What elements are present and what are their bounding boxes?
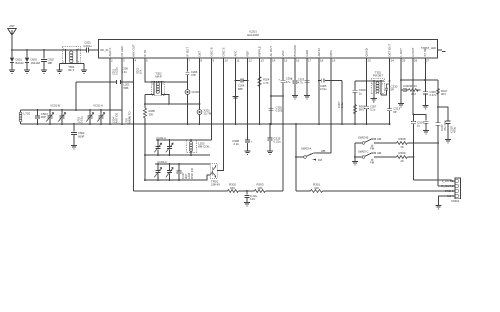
- svg-text:R OUT: R OUT: [411, 47, 415, 56]
- capacitor C310: [385, 84, 398, 92]
- wire x448 branch from x438: [438, 107, 448, 120]
- ground: [445, 140, 451, 143]
- ground: [81, 70, 87, 73]
- resistor R302: [228, 183, 239, 193]
- capacitor C316 on pin27 wire to ground: [423, 90, 437, 106]
- ground: [9, 70, 15, 73]
- svg-text:2: 2: [111, 59, 113, 63]
- svg-text:RF AGC: RF AGC: [120, 46, 124, 57]
- svg-text:DET: DET: [197, 50, 201, 56]
- capacitor C206 series on pin7 wire: [185, 70, 198, 77]
- svg-text:QUAD: QUAD: [364, 48, 368, 56]
- wire x296 from bus down through SW03-A to lower rail: [295, 124, 297, 191]
- lower bus y191: [134, 190, 456, 192]
- svg-text:0.22u: 0.22u: [274, 140, 282, 144]
- capacitor C307 series on pin22 wire: [364, 104, 377, 111]
- svg-text:0.1u: 0.1u: [370, 108, 376, 112]
- rotated label L703: [76, 116, 83, 123]
- capacitor series on x414: [411, 120, 424, 127]
- wire pin27 down: [425, 58, 427, 90]
- wire pin24 down: [389, 58, 391, 124]
- svg-text:MPX: MPX: [329, 50, 333, 56]
- nodes on VC01 rails: [37, 109, 146, 125]
- transistor TR01: [210, 164, 220, 187]
- trimmer capacitor VC03 a: [154, 163, 161, 181]
- wire pin7 down: [187, 58, 189, 82]
- svg-text:BYPASS: BYPASS: [293, 45, 297, 56]
- antenna ANT: [8, 24, 17, 50]
- wire pin22 down: [366, 58, 368, 124]
- svg-text:0.1u: 0.1u: [340, 102, 344, 108]
- svg-text:CN301: CN301: [451, 199, 460, 203]
- svg-text:68P: 68P: [238, 87, 243, 91]
- capacitor C304 electrolytic on pin15: [278, 58, 292, 124]
- svg-text:24: 24: [391, 59, 395, 63]
- svg-text:VC03-A: VC03-A: [157, 160, 167, 164]
- trimmer capacitor VC02 b: [166, 139, 173, 156]
- ground stub on pin11: [232, 97, 238, 100]
- wire connector row1: [414, 180, 456, 181]
- wire TR01 to pin10 riser: [216, 165, 224, 171]
- wire VC03 top rail: [155, 163, 210, 165]
- svg-text:MIX OUT: MIX OUT: [131, 44, 135, 56]
- rotated label L204 ANT COIL: [111, 111, 131, 124]
- wire link y80.5 pins18-19 to 342: [319, 80, 342, 82]
- svg-text:HA12002: HA12002: [247, 33, 259, 37]
- svg-text:SW03-C: SW03-C: [358, 150, 369, 154]
- ground: [371, 99, 377, 102]
- wire jog x426 cap to ground: [414, 115, 427, 121]
- svg-text:AF OUT: AF OUT: [269, 46, 273, 57]
- svg-text:47u 16V: 47u 16V: [443, 120, 447, 131]
- ground: [267, 151, 273, 154]
- wire x438 vertical down to connector row2: [437, 80, 439, 186]
- svg-text:18: 18: [320, 59, 324, 63]
- capacitor C315 below bus: [267, 123, 281, 151]
- wire riser x283 to bus: [282, 124, 284, 191]
- diode D501: [10, 50, 24, 70]
- resistor R308: [397, 137, 439, 149]
- wire pin26 down: [412, 58, 414, 115]
- diode D502: [25, 50, 41, 70]
- svg-text:FM: FM: [370, 146, 375, 150]
- svg-text:R308: R308: [399, 137, 406, 141]
- svg-text:1: 1: [372, 84, 374, 86]
- node at 44,50: [43, 49, 45, 51]
- inductor L203 dashed box: [186, 139, 210, 156]
- svg-text:30P: 30P: [41, 115, 46, 119]
- transformer T504: [60, 46, 85, 72]
- capacitor C308 below bus: [232, 124, 253, 151]
- svg-text:10.7M: 10.7M: [204, 112, 212, 116]
- svg-text:19: 19: [332, 59, 336, 63]
- wire pin25 down: [400, 58, 402, 90]
- wire link y81 x355 to T302: [355, 80, 371, 82]
- capacitor C313 on pin24 wire: [387, 107, 401, 114]
- ground: [398, 104, 404, 107]
- svg-text:VC01-B: VC01-B: [50, 104, 60, 108]
- wire pin12 down: [247, 58, 249, 124]
- trimmer capacitor VC02 a: [154, 139, 161, 156]
- svg-text:22: 22: [368, 59, 372, 63]
- svg-text:5P: 5P: [391, 88, 395, 92]
- switch SW03-A: [295, 147, 331, 162]
- svg-text:VC01-A: VC01-A: [93, 104, 103, 108]
- wire pin4 long down to lower bus: [133, 58, 135, 191]
- wire pin14 down: [270, 58, 272, 124]
- node at 12,50: [11, 49, 13, 51]
- svg-text:R313: R313: [410, 84, 417, 88]
- wire antenna input rail y50: [12, 49, 65, 51]
- capacitor C504: [35, 110, 48, 124]
- svg-text:WB: WB: [321, 149, 326, 153]
- wire pin11 down: [235, 58, 237, 124]
- ground: [244, 203, 250, 206]
- svg-text:AM COIL: AM COIL: [198, 145, 210, 149]
- svg-text:4: 4: [135, 59, 137, 63]
- svg-text:REF: REF: [245, 50, 249, 56]
- wire pin5 down: [145, 58, 152, 82]
- capacitor C303 on pin16 to ground: [291, 58, 305, 96]
- wire pin18 down: [318, 58, 320, 124]
- ground: [304, 96, 310, 99]
- svg-text:8: 8: [201, 59, 203, 63]
- resistor R301: [311, 183, 323, 193]
- capacitor C502: [41, 50, 54, 70]
- svg-text:5K6: 5K6: [359, 108, 365, 112]
- svg-text:0.01u: 0.01u: [79, 116, 83, 123]
- resistor R204: [258, 77, 270, 87]
- svg-text:RF T: RF T: [68, 68, 74, 72]
- wire x414 vertical to connector row1: [413, 115, 415, 180]
- capacitor C319 series on x448: [445, 121, 456, 140]
- capacitor C205: [117, 80, 121, 84]
- node: [109, 81, 111, 83]
- svg-text:14: 14: [272, 59, 276, 63]
- svg-text:IF IN: IF IN: [143, 50, 147, 56]
- svg-text:10K: 10K: [257, 186, 262, 190]
- wire connector row4 to ground: [439, 196, 456, 206]
- svg-text:330: 330: [149, 112, 154, 116]
- wire branch x355: [354, 81, 356, 124]
- wire pin19 down to SW03-A: [330, 58, 332, 153]
- svg-text:0.022u: 0.022u: [115, 67, 118, 75]
- svg-text:R309: R309: [399, 151, 406, 155]
- svg-text:6P: 6P: [393, 110, 397, 114]
- svg-text:CF201: CF201: [192, 90, 201, 94]
- wire pin13 down: [259, 58, 261, 124]
- resistor R317 on x438: [437, 89, 448, 97]
- svg-text:13: 13: [261, 59, 265, 63]
- svg-text:DET OUT: DET OUT: [387, 44, 391, 57]
- svg-text:ST IND: ST IND: [423, 47, 427, 56]
- svg-text:FM: FM: [370, 160, 375, 164]
- svg-text:1K: 1K: [400, 159, 404, 163]
- wire AGC link y82: [76, 81, 134, 83]
- svg-text:11: 11: [237, 59, 240, 63]
- wire pin17 down to ground: [306, 58, 308, 96]
- svg-text:10K: 10K: [139, 69, 142, 74]
- capacitor C503 to ground below bus: [71, 123, 85, 145]
- svg-text:9: 9: [213, 59, 215, 63]
- VC01 top rail y110: [21, 109, 123, 111]
- rotated labels OSC coil: [181, 167, 194, 179]
- svg-text:+: +: [251, 140, 253, 144]
- transformer T302 FM DET: [371, 71, 387, 99]
- wire switch common to ground: [354, 143, 356, 162]
- op-amp IC201 main IC box: [99, 40, 438, 59]
- capacitor C302: [268, 106, 284, 113]
- svg-text:AM IF: AM IF: [155, 75, 163, 79]
- resistor R307 on x355: [354, 105, 367, 114]
- svg-text:FM: FM: [318, 158, 323, 162]
- resistor R303: [255, 183, 266, 193]
- wire pin8 down: [199, 58, 201, 124]
- svg-text:27: 27: [426, 59, 430, 63]
- IC pin labels (rotated) and pin numbers: [108, 44, 427, 57]
- svg-text:470u: 470u: [452, 126, 456, 133]
- svg-text:3: 3: [123, 59, 125, 63]
- nodes on main bus: [187, 123, 391, 125]
- svg-text:7: 7: [189, 59, 191, 63]
- transformer T202: [145, 72, 188, 105]
- svg-text:10: 10: [225, 59, 229, 63]
- svg-text:GND: GND: [305, 50, 309, 56]
- wire down to VC01 rail: [75, 82, 77, 110]
- svg-text:560P: 560P: [78, 134, 84, 138]
- svg-text:OSC B: OSC B: [209, 47, 213, 56]
- svg-text:OSC E: OSC E: [221, 47, 225, 56]
- svg-text:3K3: 3K3: [441, 92, 446, 96]
- trimmer capacitor VC01-A a: [86, 110, 93, 124]
- svg-text:4: 4: [382, 84, 384, 86]
- svg-text:1: 1: [152, 84, 154, 86]
- svg-text:L_OUT 1: L_OUT 1: [442, 179, 454, 183]
- svg-text:100: 100: [314, 186, 319, 190]
- crystal X201: [197, 109, 212, 116]
- svg-text:RIPPLE: RIPPLE: [257, 46, 261, 56]
- capacitor C306 on x355: [352, 88, 366, 95]
- svg-text:0.47u: 0.47u: [430, 93, 437, 97]
- wire left link x145: [144, 155, 146, 180]
- wire VC02 top rail: [156, 139, 212, 141]
- switch SW03-C: [355, 150, 397, 165]
- svg-text:4.7K: 4.7K: [263, 81, 269, 85]
- capacitor C320 + resistor R313 row y90 left: [401, 84, 421, 96]
- svg-text:GND 3: GND 3: [445, 189, 454, 193]
- svg-text:+: +: [278, 79, 280, 82]
- wire x425 down to cap: [425, 90, 427, 92]
- svg-text:10K: 10K: [230, 186, 235, 190]
- svg-text:1N4148: 1N4148: [31, 61, 41, 65]
- node at 27,50: [26, 49, 28, 51]
- svg-text:AFC: AFC: [233, 51, 237, 57]
- svg-text:OSC CO: OSC CO: [190, 167, 194, 179]
- resistor R205: [143, 108, 155, 124]
- svg-text:26: 26: [414, 59, 418, 63]
- svg-text:5R6: 5R6: [124, 86, 129, 90]
- capacitor C305: [320, 78, 327, 91]
- ground: [423, 131, 429, 134]
- switch SW03-B: [355, 136, 397, 151]
- capacitor C501: [81, 41, 99, 53]
- ceramic filter CF201: [185, 90, 200, 95]
- resistor R309: [397, 151, 414, 163]
- svg-text:1K: 1K: [400, 145, 404, 149]
- wire VC02 bottom rail: [145, 154, 210, 156]
- svg-text:0.01: 0.01: [122, 70, 128, 74]
- svg-text:18P: 18P: [48, 61, 53, 65]
- wire pin2 down: [109, 58, 111, 124]
- ground: [352, 162, 358, 165]
- svg-text:1u: 1u: [359, 91, 363, 95]
- wire connector row2: [438, 185, 455, 187]
- svg-text:ANT CO: ANT CO: [114, 112, 118, 123]
- ground: [56, 70, 62, 73]
- wire pin5 continues below bus to VC rows: [144, 124, 146, 180]
- audio section: wire link y80 pins25-27: [401, 79, 438, 81]
- svg-text:17: 17: [308, 59, 312, 63]
- svg-text:AM IN: AM IN: [317, 48, 321, 56]
- capacitor C317 series on x438: [435, 120, 447, 131]
- wire link y96: [271, 95, 283, 97]
- svg-text:L702: L702: [24, 112, 31, 116]
- wire VC03 bottom rail: [145, 175, 210, 180]
- svg-text:AM: AM: [377, 151, 382, 155]
- svg-text:AGC F: AGC F: [108, 47, 112, 56]
- svg-text:AM: AM: [377, 137, 382, 141]
- ground: [24, 70, 30, 73]
- trimmer capacitor VC01-B a: [46, 110, 53, 124]
- svg-text:SW03-B: SW03-B: [358, 136, 369, 140]
- svg-text:SW03-A: SW03-A: [301, 147, 312, 151]
- wire pin3 down: [121, 58, 123, 124]
- ground: [422, 106, 428, 109]
- svg-text:IF OUT: IF OUT: [185, 47, 189, 57]
- svg-text:0.01u: 0.01u: [320, 87, 327, 91]
- svg-text:2SK49: 2SK49: [211, 183, 220, 187]
- svg-text:AM(M) TD: AM(M) TD: [127, 111, 131, 124]
- svg-text:0.001u: 0.001u: [83, 44, 92, 48]
- ground: [41, 70, 47, 73]
- svg-text:16V: 16V: [250, 197, 255, 201]
- svg-text:15: 15: [284, 59, 288, 63]
- trimmer capacitor VC01-A b: [97, 110, 104, 124]
- svg-text:4.7u: 4.7u: [298, 81, 304, 85]
- svg-text:R_OUT 2: R_OUT 2: [441, 184, 454, 188]
- wire x401 to ground: [400, 90, 402, 104]
- svg-text:ANT: ANT: [9, 24, 15, 28]
- svg-text:1u: 1u: [417, 123, 421, 127]
- svg-text:5: 5: [146, 59, 148, 63]
- svg-text:47P: 47P: [191, 73, 196, 77]
- capacitor C318 below lower bus: [244, 190, 257, 202]
- svg-text:2K2: 2K2: [411, 92, 416, 96]
- ground: [435, 206, 441, 209]
- wire pin9 down to VC02 rail: [211, 58, 213, 140]
- capacitor C204: [235, 78, 249, 91]
- trimmer capacitor VC03 b: [166, 163, 173, 181]
- wire IF link y104: [145, 103, 200, 105]
- svg-text:16: 16: [296, 59, 300, 63]
- svg-text:2.2u: 2.2u: [233, 142, 239, 146]
- svg-text:VCC: VCC: [281, 50, 285, 56]
- trimmer capacitor VC01-B b: [58, 110, 65, 124]
- ground: [292, 96, 298, 99]
- wire branch x342: [341, 81, 343, 125]
- svg-text:12: 12: [249, 59, 253, 63]
- main ground bus y124: [21, 123, 390, 125]
- ground: [244, 151, 250, 154]
- inductor L702: [19, 110, 30, 124]
- svg-text:BA102: BA102: [16, 61, 25, 65]
- capacitor C316 in VC03: [176, 163, 181, 181]
- connector CN301: [441, 178, 460, 203]
- ground: [71, 146, 77, 149]
- svg-text:25: 25: [402, 59, 406, 63]
- svg-text:FM DET: FM DET: [373, 74, 383, 78]
- svg-text:L OUT: L OUT: [399, 48, 403, 57]
- wire pin10 down to TR01: [217, 58, 224, 171]
